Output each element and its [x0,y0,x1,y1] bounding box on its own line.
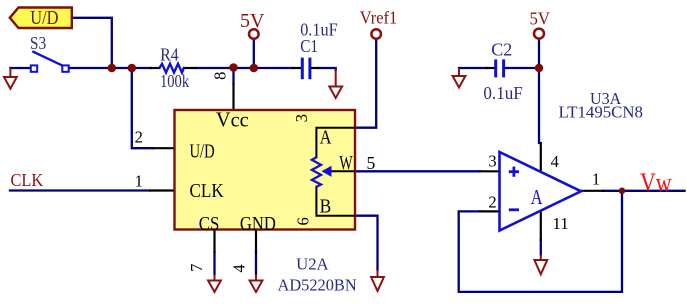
svg-text:5: 5 [367,153,376,173]
svg-text:0.1uF: 0.1uF [483,82,523,103]
svg-text:1: 1 [592,170,600,189]
svg-text:A: A [531,186,543,209]
svg-text:S3: S3 [30,33,46,53]
svg-text:Vref1: Vref1 [360,8,397,28]
svg-text:4: 4 [230,264,249,272]
svg-text:C1: C1 [300,36,318,57]
svg-text:8: 8 [211,72,230,80]
svg-text:7: 7 [187,264,206,272]
svg-text:3: 3 [488,151,496,170]
svg-text:R4: R4 [160,44,179,64]
svg-text:U2A: U2A [296,254,329,273]
svg-text:LT1495CN8: LT1495CN8 [559,102,643,121]
svg-text:4: 4 [551,152,559,171]
svg-text:5V: 5V [240,10,265,32]
svg-text:AD5220BN: AD5220BN [278,275,357,294]
svg-text:11: 11 [552,214,568,233]
svg-text:CS: CS [199,212,220,234]
svg-text:6: 6 [293,217,312,225]
svg-text:1: 1 [135,172,143,191]
svg-text:5V: 5V [530,9,551,29]
svg-text:Vw: Vw [640,168,672,197]
svg-text:Vcc: Vcc [216,109,249,131]
svg-text:CLK: CLK [11,171,44,191]
svg-text:W: W [339,152,353,174]
svg-text:GND: GND [240,212,276,234]
svg-text:100k: 100k [160,71,190,92]
svg-text:U/D: U/D [190,139,215,162]
svg-text:2: 2 [488,192,496,211]
svg-text:A: A [320,126,333,148]
svg-text:3: 3 [292,114,311,122]
svg-text:C2: C2 [491,40,512,60]
svg-text:B: B [320,195,332,217]
svg-text:2: 2 [135,128,143,147]
svg-text:U/D: U/D [30,7,58,29]
svg-text:CLK: CLK [190,180,225,203]
